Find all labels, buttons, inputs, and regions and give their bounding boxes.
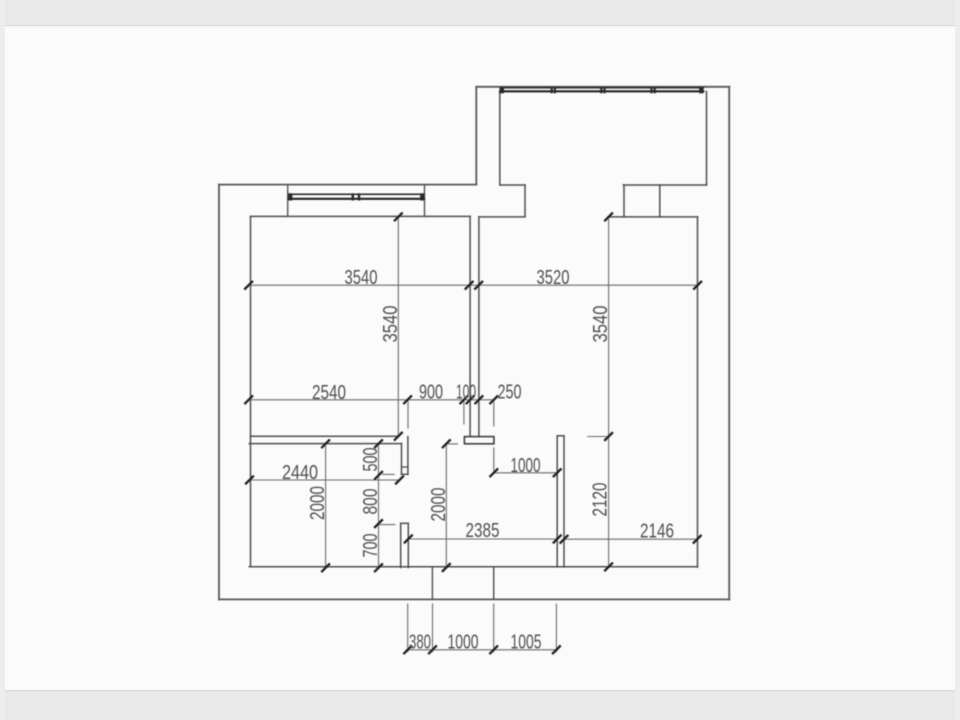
hall wall stub lower: top cap bbox=[401, 522, 409, 524]
svg-text:380: 380 bbox=[409, 632, 431, 654]
ticks for 2146 bbox=[561, 536, 701, 543]
ticks for 3540/3520 bbox=[245, 282, 701, 289]
dim line 2540/900/100/250 bbox=[249, 399, 494, 401]
left room window opening jamb right bbox=[424, 185, 426, 217]
outer wall top-left bbox=[219, 184, 476, 186]
svg-text:2540: 2540 bbox=[312, 382, 346, 404]
left room bottom wall lower face bbox=[249, 443, 401, 445]
left room window centre mullion bbox=[352, 193, 361, 200]
svg-text:1005: 1005 bbox=[511, 632, 542, 654]
ticks for 2540/900/100/250 bbox=[245, 396, 497, 403]
left room bottom wall upper face bbox=[251, 435, 398, 437]
svg-text:900: 900 bbox=[419, 382, 443, 404]
svg-text:700: 700 bbox=[360, 534, 382, 558]
vertical dim line 2000 closet bbox=[325, 444, 327, 568]
entry door opening jamb left bbox=[431, 567, 433, 600]
balcony window band bbox=[500, 88, 703, 92]
svg-text:2146: 2146 bbox=[640, 521, 674, 543]
ticks for closet 2000 bbox=[322, 440, 329, 571]
balcony bottom inner wall bbox=[623, 184, 706, 186]
vertical dim line 3540 left room bbox=[397, 217, 399, 436]
svg-text:1000: 1000 bbox=[511, 455, 541, 477]
left room window opening jamb left bbox=[287, 185, 289, 217]
ticks for left 3540 bbox=[395, 213, 402, 439]
grey backdrop band bottom bbox=[0, 691, 960, 720]
left room window band bbox=[289, 194, 425, 199]
left inner wall bbox=[250, 216, 252, 566]
partition wall right face bbox=[563, 436, 565, 567]
vertical dim line 500/800/700 bbox=[379, 444, 395, 568]
hall wall stub lower: left face bbox=[400, 523, 402, 567]
bottom dim chain 380/1000/1005 bbox=[406, 604, 558, 652]
outer wall balcony left bbox=[475, 87, 477, 185]
page bottom edge shadow bbox=[0, 690, 960, 691]
ticks for 1000 bbox=[490, 469, 560, 476]
svg-text:500: 500 bbox=[360, 448, 382, 472]
balcony step: sill back to wall bbox=[479, 216, 525, 218]
middle wall right face bbox=[478, 217, 480, 436]
ticks for 500/800/700 bbox=[375, 440, 382, 571]
outer wall right bbox=[728, 87, 730, 600]
balcony step: lintel bbox=[500, 184, 525, 186]
ticks for 380/1000/1005 bbox=[404, 646, 560, 653]
outer wall bottom bbox=[219, 598, 729, 600]
left room inner top wall bbox=[251, 215, 471, 217]
ticks for 2385 bbox=[405, 536, 561, 543]
balcony inner left wall bbox=[499, 91, 501, 185]
grey backdrop strip left bbox=[0, 0, 5, 720]
dim line 3540/3520 horizontal bbox=[249, 284, 698, 286]
svg-text:1000: 1000 bbox=[448, 632, 479, 654]
hall wall stub upper: notch bbox=[402, 466, 408, 468]
vertical dim line 2000 hall bbox=[446, 444, 457, 568]
grey backdrop strip right bbox=[955, 0, 960, 720]
extension lines below dim chain bbox=[408, 400, 494, 473]
partition wall top cap bbox=[557, 435, 564, 437]
outer wall left bbox=[218, 185, 220, 600]
middle wall foot bbox=[464, 437, 494, 444]
svg-text:2440: 2440 bbox=[282, 462, 318, 484]
balcony window mullions bbox=[551, 87, 656, 93]
ticks for right 3540/2120 bbox=[605, 213, 612, 570]
middle wall left face bbox=[469, 216, 471, 436]
dim line 1000 hall opening bbox=[494, 472, 557, 474]
svg-text:3540: 3540 bbox=[380, 306, 402, 343]
ticks for hall 2000 bbox=[443, 440, 450, 571]
svg-text:2120: 2120 bbox=[590, 483, 612, 517]
balcony pier box left side bbox=[623, 185, 625, 217]
inner bottom wall bbox=[249, 566, 697, 568]
hall wall stub lower: right face bbox=[407, 523, 409, 567]
ticks for 2440 bbox=[246, 477, 403, 484]
hall wall stub upper: bottom cap bbox=[402, 473, 408, 475]
left room window end caps bbox=[288, 193, 424, 200]
dim line 2440 bbox=[250, 479, 401, 481]
partition wall left face (hall / right room) bbox=[556, 436, 558, 567]
dim line 2385 bbox=[408, 538, 557, 540]
entry door opening jamb right bbox=[493, 567, 495, 600]
balcony pier box divider bbox=[659, 185, 661, 217]
svg-text:3520: 3520 bbox=[537, 267, 570, 289]
svg-text:250: 250 bbox=[498, 382, 522, 404]
svg-text:3540: 3540 bbox=[345, 267, 378, 289]
right room top wall bbox=[608, 216, 698, 218]
balcony step: pier right side bbox=[524, 185, 526, 217]
hall wall stub upper: right face bbox=[407, 437, 409, 475]
balcony inner right wall bbox=[706, 91, 708, 185]
outer wall top-right bbox=[476, 86, 729, 88]
svg-text:100: 100 bbox=[456, 382, 476, 404]
svg-text:2000: 2000 bbox=[428, 488, 450, 522]
vertical dim line 3540/2120 right room bbox=[588, 217, 609, 567]
grey backdrop band top bbox=[0, 0, 960, 25]
balcony window end caps bbox=[500, 87, 704, 93]
page top edge shadow bbox=[0, 25, 960, 26]
dim line 2146 bbox=[564, 538, 697, 540]
svg-text:2385: 2385 bbox=[466, 520, 500, 542]
svg-text:800: 800 bbox=[360, 489, 382, 515]
svg-text:3540: 3540 bbox=[590, 306, 612, 343]
right room inner right wall bbox=[697, 217, 699, 567]
svg-text:2000: 2000 bbox=[307, 486, 329, 520]
hall wall stub upper: left face bbox=[401, 444, 403, 475]
